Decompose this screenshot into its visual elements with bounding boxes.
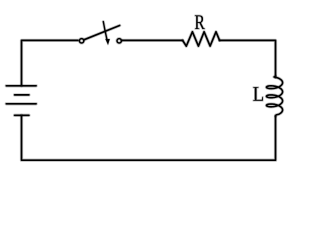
inductor L coil	[266, 76, 282, 116]
switch SW1 actuation arrowhead	[105, 39, 109, 45]
battery B1 short plate	[15, 94, 29, 96]
soft halo pass (blur imitation)	[6, 15, 282, 160]
resistor R zigzag	[183, 32, 220, 46]
switch SW1 blade	[84, 26, 119, 40]
wire bottom loop	[22, 115, 276, 160]
switch SW1 left contact	[79, 39, 83, 43]
battery B1 short plate -	[15, 114, 29, 116]
switch SW1 right contact	[117, 39, 121, 43]
battery B1 long plate	[6, 103, 36, 105]
label R	[195, 15, 205, 29]
wire switch-to-resistor	[122, 39, 183, 41]
label L	[253, 87, 263, 101]
wire top-left	[22, 40, 78, 85]
battery B1 long plate +	[6, 85, 36, 87]
wire resistor-to-corner	[220, 40, 276, 77]
switch SW1 actuation arrow shaft	[103, 22, 107, 39]
